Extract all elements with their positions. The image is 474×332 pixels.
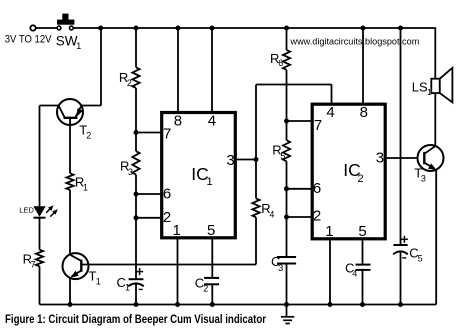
svg-text:1: 1 — [427, 87, 432, 97]
svg-text:7: 7 — [314, 117, 322, 134]
svg-text:4: 4 — [208, 113, 216, 130]
svg-text:2: 2 — [358, 173, 364, 185]
svg-text:1: 1 — [76, 41, 81, 51]
svg-text:5: 5 — [418, 254, 423, 264]
svg-text:4: 4 — [352, 268, 357, 278]
svg-text:8: 8 — [360, 104, 368, 121]
svg-text:1: 1 — [207, 176, 213, 188]
svg-text:7: 7 — [31, 259, 36, 269]
svg-text:3: 3 — [421, 174, 426, 184]
svg-text:1: 1 — [125, 283, 130, 293]
svg-text:1: 1 — [173, 222, 181, 239]
svg-text:6: 6 — [278, 58, 283, 68]
svg-text:3: 3 — [278, 263, 283, 273]
svg-text:www.digitacircuits.blogspot.co: www.digitacircuits.blogspot.com — [290, 36, 420, 46]
svg-text:5: 5 — [280, 151, 285, 161]
svg-text:6: 6 — [163, 186, 171, 203]
svg-text:2: 2 — [163, 209, 171, 226]
svg-text:1: 1 — [325, 223, 333, 240]
svg-text:4: 4 — [326, 104, 334, 121]
svg-text:4: 4 — [269, 209, 274, 219]
svg-text:2: 2 — [313, 208, 321, 225]
svg-text:3: 3 — [376, 150, 384, 167]
svg-text:LS: LS — [412, 79, 428, 94]
svg-text:5: 5 — [358, 223, 366, 240]
svg-text:2: 2 — [127, 78, 132, 88]
svg-text:6: 6 — [313, 180, 321, 197]
svg-text:1: 1 — [83, 182, 88, 192]
svg-text:2: 2 — [203, 283, 208, 293]
svg-text:3: 3 — [128, 167, 133, 177]
svg-text:1: 1 — [96, 277, 101, 287]
svg-text:7: 7 — [163, 126, 171, 143]
svg-text:2: 2 — [86, 130, 91, 140]
svg-text:LED: LED — [19, 206, 34, 215]
svg-text:3V TO 12V: 3V TO 12V — [5, 34, 52, 46]
svg-text:5: 5 — [207, 222, 215, 239]
svg-text:3: 3 — [226, 152, 234, 169]
svg-text:8: 8 — [174, 113, 182, 130]
svg-text:SW: SW — [56, 34, 78, 49]
svg-text:Figure 1: Circuit Diagram of B: Figure 1: Circuit Diagram of Beeper Cum … — [5, 312, 266, 326]
